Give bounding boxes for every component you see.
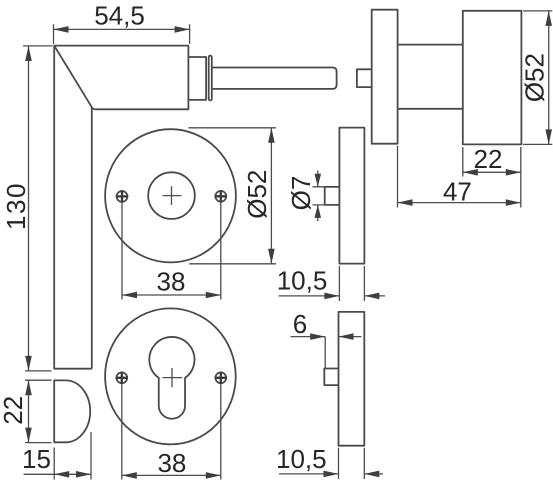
square spindle bar bbox=[212, 68, 336, 89]
svg-text:54,5: 54,5 bbox=[94, 0, 145, 30]
knob neck bbox=[398, 45, 463, 109]
dimension diameter 7 pin bbox=[286, 171, 325, 222]
knob head bbox=[463, 11, 522, 145]
svg-text:6: 6 bbox=[293, 309, 307, 339]
top rosette side view pin tab bbox=[325, 187, 340, 205]
screw top-right bbox=[215, 190, 227, 202]
dimension diameter 52 knob bbox=[520, 11, 553, 145]
dimension 38 top rosette bbox=[122, 203, 221, 300]
bottom rosette side view plate bbox=[339, 312, 365, 446]
svg-text:Ø52: Ø52 bbox=[520, 53, 550, 102]
keyhole euro profile bbox=[149, 337, 194, 419]
spindle collar bbox=[188, 57, 206, 100]
dimension 15 bbox=[22, 432, 91, 480]
grip cross-section D-shape bbox=[54, 380, 90, 442]
svg-text:47: 47 bbox=[443, 177, 472, 207]
dimension 22 grip section bbox=[0, 380, 52, 442]
bottom rosette side view pin tab bbox=[324, 369, 338, 386]
top rosette inner circle bbox=[148, 172, 195, 219]
top rosette side view plate bbox=[339, 128, 364, 264]
dimension 10,5 top plate bbox=[277, 265, 385, 301]
knob side view rosette plate bbox=[372, 10, 398, 144]
top rosette center cross bbox=[163, 186, 182, 205]
spindle tab on knob plate bbox=[357, 69, 372, 87]
spindle ring flange bbox=[209, 56, 212, 101]
lever handle front view outline bbox=[54, 46, 188, 369]
dimension 38 bottom rosette bbox=[122, 384, 221, 480]
dimension 54,5 bbox=[54, 0, 190, 44]
svg-text:10,5: 10,5 bbox=[276, 444, 327, 474]
bottom rosette outer circle bbox=[105, 308, 236, 444]
dimension 22 knob head bbox=[463, 144, 521, 208]
screw bottom-left bbox=[116, 372, 128, 384]
svg-text:38: 38 bbox=[157, 267, 186, 297]
svg-text:10,5: 10,5 bbox=[277, 265, 328, 295]
svg-text:Ø52: Ø52 bbox=[242, 170, 272, 219]
svg-text:15: 15 bbox=[22, 444, 51, 474]
dimension diameter 52 top rosette bbox=[189, 128, 277, 264]
svg-text:22: 22 bbox=[0, 396, 28, 425]
dimension 6 pin protrusion bbox=[291, 309, 362, 369]
dimension 130 bbox=[1, 46, 52, 371]
keyhole center cross bbox=[163, 368, 183, 387]
dimension 10,5 bottom plate bbox=[276, 444, 383, 479]
screw bottom-right bbox=[215, 372, 227, 384]
screw top-left bbox=[116, 190, 128, 202]
svg-text:Ø7: Ø7 bbox=[286, 176, 316, 211]
top rosette outer circle bbox=[105, 129, 236, 262]
svg-text:130: 130 bbox=[1, 182, 31, 230]
dimension 47 knob total bbox=[398, 146, 521, 208]
svg-text:22: 22 bbox=[474, 144, 503, 174]
svg-text:38: 38 bbox=[157, 448, 186, 478]
